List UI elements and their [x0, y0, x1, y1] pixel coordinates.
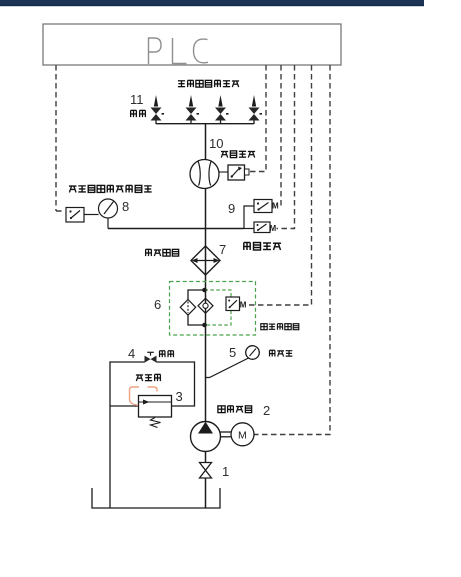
gate valve 4: [145, 352, 157, 362]
junction node bottom of filter: [202, 323, 207, 328]
spring of safety valve: [151, 418, 161, 428]
wire manifold to flow indicator: [205, 124, 207, 160]
control line (dashed) PLC to upper temperature switch: [278, 65, 281, 206]
junction node top of filter: [202, 288, 207, 293]
suction wire to tank: [205, 478, 207, 508]
wire pump to valve 1: [205, 452, 207, 463]
thermometer dial 8: [99, 199, 118, 229]
gate valve 11b with outflow arrow: [186, 95, 200, 124]
svg-text:6: 6: [154, 297, 161, 312]
gate valve 11d with outflow arrow: [249, 95, 263, 124]
svg-text:3: 3: [176, 389, 183, 404]
motor M: [231, 423, 254, 446]
svg-text:10: 10: [209, 136, 223, 151]
label gate valve (top): [131, 110, 146, 117]
filter element (left diamond): [180, 300, 195, 316]
label pressure gauge: [270, 350, 293, 356]
PLC label text: [149, 38, 209, 64]
air cooler 7: [191, 246, 220, 275]
gate valve 11c with outflow arrow: [215, 95, 229, 124]
screw pump P1: [191, 422, 221, 452]
control line (dashed) PLC to filter clog indicator: [248, 65, 312, 305]
top navy banner: [0, 0, 424, 6]
svg-text:M: M: [272, 202, 279, 211]
coupling: [221, 431, 232, 433]
PLC controller box: [43, 24, 341, 65]
bypass loop wire: [110, 362, 195, 508]
svg-text:9: 9: [228, 201, 235, 216]
svg-text:7: 7: [219, 242, 226, 257]
flow indicator 10: [190, 160, 219, 189]
shutoff valve 1: [200, 463, 212, 479]
svg-text:M: M: [238, 430, 247, 442]
wire contact box to dial: [84, 214, 99, 216]
svg-text:4: 4: [128, 346, 135, 361]
svg-text:M: M: [270, 224, 277, 233]
svg-text:5: 5: [229, 345, 236, 360]
sense wire across main pipe: [108, 228, 244, 230]
label gate valve 4: [160, 351, 174, 357]
flow switch FS: [219, 165, 249, 180]
label bimetal contact thermometer: [69, 185, 152, 192]
pressure gauge 5: [206, 346, 260, 378]
oil tank: [92, 488, 220, 508]
svg-text:8: 8: [122, 199, 129, 214]
filter group 6 green enclosure: [170, 282, 256, 336]
filter left branch wire: [188, 290, 205, 325]
svg-text:1: 1: [222, 464, 229, 479]
svg-text:11: 11: [130, 92, 144, 107]
control line (dashed) PLC to flow switch: [249, 65, 266, 172]
thermometer contact box: [66, 208, 84, 223]
wire flow indicator to pump (main pipe): [205, 189, 207, 422]
gate valve 11a with outflow arrow: [151, 95, 165, 124]
label screw pump unit: [218, 406, 252, 413]
safety valve 3: [139, 396, 172, 418]
filter inner green dashed link: [205, 290, 232, 325]
label single-cylinder oil filter: [261, 324, 299, 330]
label safety valve: [136, 374, 160, 381]
label: to gearbox lubrication points: [178, 80, 239, 87]
control line (dashed) PLC to thermometer contact: [56, 65, 64, 211]
clog indicator box with M: [226, 297, 247, 311]
svg-text:M: M: [240, 301, 247, 310]
svg-text:2: 2: [263, 403, 270, 418]
temperature switches 9: [244, 200, 279, 234]
control line (dashed) PLC to lower temperature switch: [277, 65, 295, 229]
control line (dashed) PLC to pump motor: [255, 65, 331, 435]
label air cooler: [146, 249, 179, 256]
pilot line (orange): [130, 387, 158, 406]
label flow switch: [221, 151, 255, 158]
manifold wire: [156, 123, 254, 125]
label temperature switch: [244, 243, 281, 251]
bypass check valve (center diamond): [198, 298, 213, 313]
